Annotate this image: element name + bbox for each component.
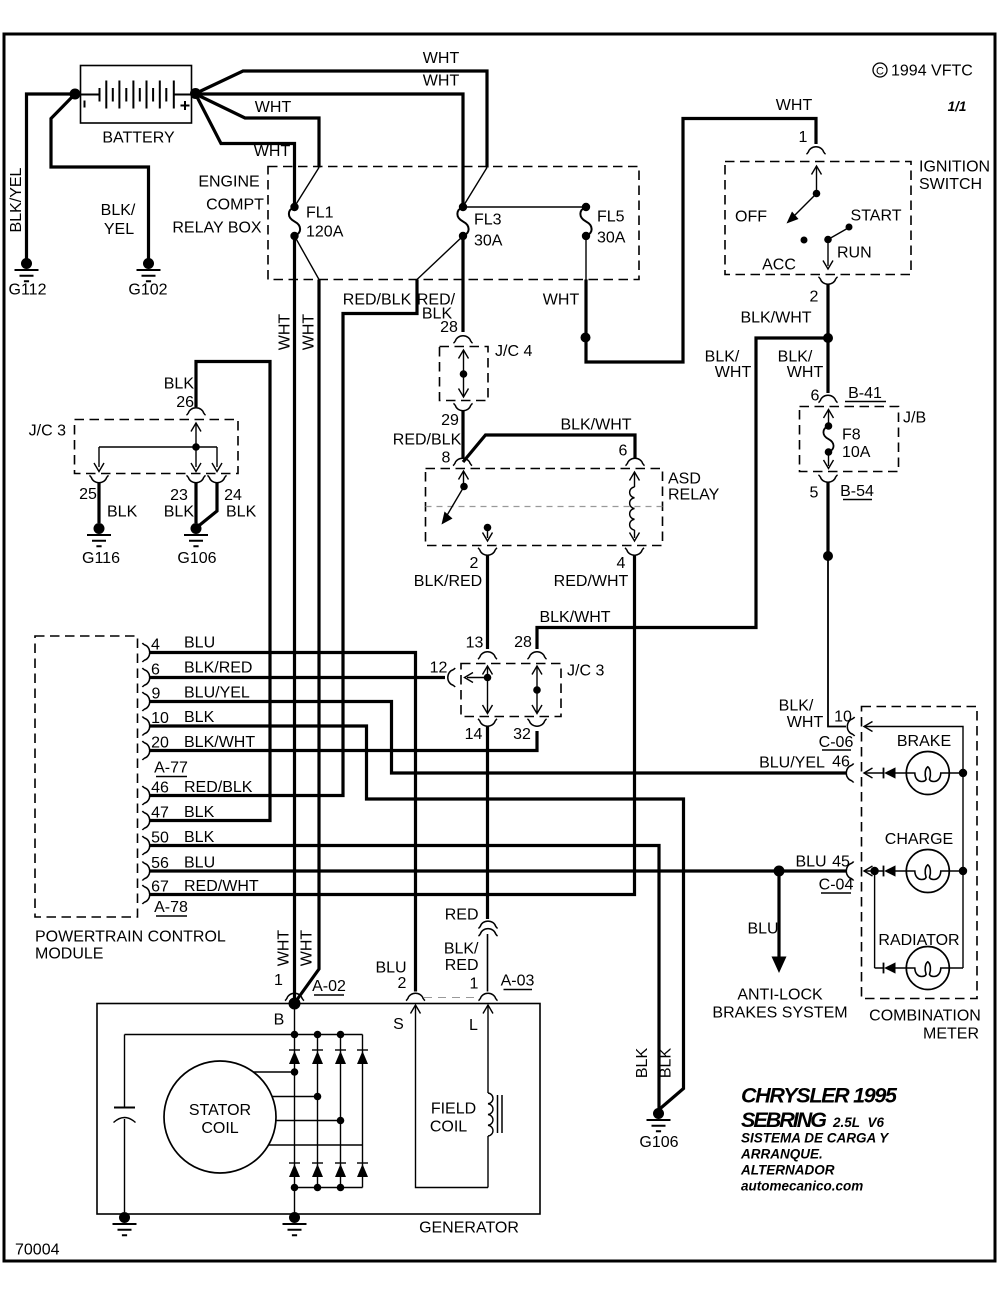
connector A-78 bbox=[154, 899, 188, 916]
wire WHT FL1 to generator B bbox=[276, 236, 295, 1000]
svg-text:START: START bbox=[851, 208, 902, 225]
svg-text:RED/BLK: RED/BLK bbox=[343, 292, 412, 309]
connector PCM pin 67 bbox=[142, 878, 258, 904]
junction block J/B bbox=[800, 407, 927, 472]
wire WHT FL5 to ignition switch pin 1 bbox=[543, 97, 816, 362]
wire BLK PCM pin 47 to J/C 3 pin 26 bbox=[150, 362, 270, 821]
svg-text:BRAKES SYSTEM: BRAKES SYSTEM bbox=[712, 1005, 847, 1022]
svg-text:14: 14 bbox=[465, 726, 483, 743]
svg-text:G116: G116 bbox=[82, 550, 120, 567]
connector B-54 pin 5 bbox=[810, 475, 874, 502]
svg-text:BLK/RED: BLK/RED bbox=[184, 660, 252, 677]
diode bridge column 1 bbox=[289, 1035, 300, 1218]
wire generator bus top bbox=[125, 1004, 363, 1039]
node START bbox=[846, 224, 853, 231]
svg-text:WHT: WHT bbox=[301, 314, 318, 351]
connector ASD relay pin 6 bbox=[625, 458, 644, 465]
svg-text:COIL: COIL bbox=[430, 1119, 467, 1136]
connector PCM pin 4 bbox=[142, 635, 215, 663]
svg-text:ENGINE: ENGINE bbox=[198, 174, 259, 191]
ground G116 bbox=[82, 523, 120, 567]
svg-text:G102: G102 bbox=[128, 282, 167, 299]
svg-text:RELAY: RELAY bbox=[668, 487, 720, 504]
wire FL3 to FL5 bbox=[463, 206, 586, 208]
svg-text:BLU: BLU bbox=[747, 921, 778, 938]
wire RED/BLK 28 FL3 to J/C 4 bbox=[417, 236, 463, 336]
svg-text:WHT: WHT bbox=[255, 99, 292, 116]
connector J/C 3 pin 12 bbox=[430, 660, 455, 688]
svg-text:WHT: WHT bbox=[543, 292, 580, 309]
wire BLK pin 25 to G116 bbox=[97, 483, 100, 524]
powertrain control module bbox=[35, 636, 226, 963]
svg-text:BLK: BLK bbox=[184, 829, 215, 846]
svg-text:32: 32 bbox=[513, 726, 531, 743]
lamp RADIATOR bbox=[875, 871, 963, 990]
node ACC bbox=[801, 237, 808, 244]
svg-text:COIL: COIL bbox=[201, 1120, 238, 1137]
connector J/C 4 pin 28 bbox=[453, 336, 472, 343]
ground G106 bbox=[177, 523, 216, 567]
connector C-04 pin 45 bbox=[795, 854, 853, 894]
svg-text:BLU/YEL: BLU/YEL bbox=[184, 685, 250, 702]
wire BLK/YEL battery to G112 bbox=[8, 94, 75, 259]
svg-text:G106: G106 bbox=[177, 550, 216, 567]
wire BLK pin 23 to G106 bbox=[194, 483, 197, 524]
svg-text:29: 29 bbox=[441, 412, 459, 429]
connector J/C 3 pin 32 bbox=[513, 719, 546, 743]
svg-text:5: 5 bbox=[810, 485, 819, 502]
svg-text:F8: F8 bbox=[842, 427, 861, 444]
svg-text:ARRANQUE.: ARRANQUE. bbox=[740, 1147, 823, 1162]
connector PCM pin 50 bbox=[142, 829, 214, 855]
wire RED J/C 3 pin 14 to inline connector bbox=[445, 726, 488, 924]
svg-text:BLK/RED: BLK/RED bbox=[414, 573, 482, 590]
svg-text:BLK: BLK bbox=[164, 376, 195, 393]
label copyright bbox=[873, 63, 973, 80]
svg-text:CHRYSLER 1995: CHRYSLER 1995 bbox=[741, 1084, 898, 1108]
svg-text:FL5: FL5 bbox=[597, 209, 625, 226]
svg-text:FIELD: FIELD bbox=[431, 1101, 476, 1118]
wire WHT battery to FL1 bbox=[196, 94, 295, 204]
svg-text:BLK: BLK bbox=[107, 504, 138, 521]
svg-text:OFF: OFF bbox=[735, 209, 767, 226]
svg-text:RADIATOR: RADIATOR bbox=[878, 932, 959, 949]
svg-text:1: 1 bbox=[470, 976, 479, 993]
connector PCM pin 6 bbox=[142, 660, 252, 688]
wire BLK/RED inline connector to generator L bbox=[444, 934, 488, 992]
ground generator center bbox=[283, 1212, 307, 1235]
svg-text:46: 46 bbox=[151, 780, 169, 797]
fuse F8 10A bbox=[823, 410, 870, 469]
connector ASD relay pin 2 bbox=[470, 548, 498, 572]
field coil bbox=[393, 1005, 502, 1188]
junction block J/C 3 upper bbox=[29, 420, 238, 474]
svg-text:RELAY BOX: RELAY BOX bbox=[172, 220, 262, 237]
svg-text:BLK/: BLK/ bbox=[101, 202, 136, 219]
svg-text:WHT: WHT bbox=[277, 314, 294, 351]
svg-text:1994 VFTC: 1994 VFTC bbox=[891, 63, 973, 80]
svg-text:WHT: WHT bbox=[423, 50, 460, 67]
svg-text:70004: 70004 bbox=[15, 1242, 60, 1259]
connector PCM pin 20 bbox=[142, 734, 255, 760]
wire BLU/YEL PCM pin 9 to C-04 region pin 46 bbox=[150, 702, 846, 774]
wire WHT battery to FL3 bbox=[196, 73, 464, 205]
svg-text:BLK/: BLK/ bbox=[705, 349, 740, 366]
svg-text:BLK/WHT: BLK/WHT bbox=[560, 417, 631, 434]
svg-text:28: 28 bbox=[440, 319, 458, 336]
svg-text:A-77: A-77 bbox=[154, 760, 188, 777]
wire WHT FL1 branch to generator B bbox=[295, 236, 320, 1001]
node RUN bbox=[823, 228, 872, 270]
svg-text:1: 1 bbox=[799, 129, 808, 146]
svg-text:BLU: BLU bbox=[375, 960, 406, 977]
connector J/C 3 pin 25 bbox=[79, 475, 137, 520]
svg-text:BATTERY: BATTERY bbox=[102, 130, 175, 147]
svg-text:WHT: WHT bbox=[776, 97, 813, 114]
svg-text:WHT: WHT bbox=[787, 714, 824, 731]
wire stator feeds bbox=[240, 1072, 363, 1145]
svg-text:SEBRING: SEBRING bbox=[741, 1108, 827, 1132]
fuse FL3 30A bbox=[457, 203, 502, 250]
connector PCM pin 9 bbox=[142, 685, 250, 712]
junction block J/C 4 bbox=[440, 343, 533, 401]
lamp BRAKE bbox=[864, 733, 967, 795]
svg-text:BLK/: BLK/ bbox=[444, 941, 479, 958]
svg-text:B-41: B-41 bbox=[848, 385, 882, 402]
svg-text:FL3: FL3 bbox=[474, 212, 502, 229]
connector ignition switch pin 2 bbox=[810, 277, 838, 306]
svg-text:28: 28 bbox=[514, 634, 532, 651]
svg-text:BLK/WHT: BLK/WHT bbox=[740, 310, 811, 327]
svg-text:BLK/: BLK/ bbox=[779, 698, 814, 715]
svg-text:23: 23 bbox=[170, 487, 188, 504]
svg-text:B: B bbox=[274, 1012, 285, 1029]
combination meter box bbox=[862, 707, 981, 1043]
fuse FL5 30A bbox=[580, 203, 625, 247]
label title block bbox=[740, 1084, 898, 1194]
connector ignition switch pin 1 bbox=[799, 129, 826, 154]
wire BLU PCM pin 56 to C-04 pin 45 bbox=[150, 869, 846, 872]
connector A-77 bbox=[154, 760, 188, 777]
svg-text:IGNITION: IGNITION bbox=[919, 159, 990, 176]
ground G106 lower bbox=[639, 1108, 678, 1151]
svg-text:BLK/WHT: BLK/WHT bbox=[184, 734, 255, 751]
diode bridge column 2 bbox=[312, 1035, 323, 1192]
wire RED/WHT ASD pin 4 to PCM pin 67 bbox=[150, 555, 635, 895]
node battery negative terminal bbox=[70, 89, 81, 100]
svg-text:2: 2 bbox=[470, 555, 479, 572]
engine compartment relay box bbox=[172, 167, 639, 280]
connector ASD relay pin 4 bbox=[617, 548, 645, 572]
connector C-06 pin 10 bbox=[819, 709, 855, 752]
svg-text:COMPT: COMPT bbox=[206, 197, 264, 214]
connector inline A-03 harness bbox=[478, 921, 497, 936]
connector J/C 3 pin 13 bbox=[466, 635, 497, 660]
svg-text:A-02: A-02 bbox=[312, 978, 346, 995]
ground G102 bbox=[128, 258, 167, 299]
svg-text:WHT: WHT bbox=[299, 930, 316, 967]
wire RED/BLK FL3 to PCM pin 46 bbox=[150, 236, 463, 796]
svg-text:automecanico.com: automecanico.com bbox=[741, 1179, 863, 1194]
svg-text:BLK: BLK bbox=[184, 804, 215, 821]
svg-text:CHARGE: CHARGE bbox=[885, 831, 953, 848]
svg-text:2.5L V6: 2.5L V6 bbox=[832, 1115, 885, 1130]
svg-text:30A: 30A bbox=[597, 230, 626, 247]
connector J/C 4 pin 29 bbox=[441, 403, 472, 429]
wire BLU to anti-lock brakes system bbox=[712, 871, 847, 1022]
connector PCM pin 47 bbox=[142, 804, 214, 830]
svg-text:J/C 3: J/C 3 bbox=[567, 663, 604, 680]
svg-text:RED: RED bbox=[445, 907, 479, 924]
wire BLU PCM pin 4 to generator S bbox=[150, 653, 416, 992]
connector J/C 3 pin 24 bbox=[207, 475, 256, 520]
wire BLK/WHT B-54 to C-06 bbox=[779, 482, 846, 731]
svg-text:RUN: RUN bbox=[837, 245, 872, 262]
svg-text:COMBINATION: COMBINATION bbox=[869, 1008, 981, 1025]
svg-text:BLK/: BLK/ bbox=[778, 349, 813, 366]
svg-text:BLU: BLU bbox=[795, 854, 826, 871]
svg-text:C: C bbox=[876, 66, 884, 78]
connector A-03 pin 1 bbox=[424, 973, 535, 1001]
diode bridge column 3 bbox=[335, 1035, 346, 1192]
battery B1 bbox=[81, 66, 192, 147]
svg-text:BRAKE: BRAKE bbox=[897, 733, 951, 750]
svg-text:RED/BLK: RED/BLK bbox=[393, 432, 462, 449]
connector S pin 2 bbox=[375, 960, 425, 1001]
svg-text:ACC: ACC bbox=[762, 257, 796, 274]
fuse FL1 120A bbox=[289, 203, 344, 241]
svg-text:1/1: 1/1 bbox=[948, 99, 967, 114]
svg-text:RED: RED bbox=[445, 957, 479, 974]
svg-text:30A: 30A bbox=[474, 233, 503, 250]
svg-text:WHT: WHT bbox=[715, 364, 752, 381]
junction block J/C 3 lower bbox=[461, 663, 604, 717]
svg-text:24: 24 bbox=[224, 487, 242, 504]
svg-text:METER: METER bbox=[923, 1026, 979, 1043]
svg-text:BLU: BLU bbox=[184, 635, 215, 652]
svg-text:STATOR: STATOR bbox=[189, 1102, 251, 1119]
svg-text:RED/BLK: RED/BLK bbox=[184, 779, 253, 796]
switch ignition rotor bbox=[787, 166, 822, 224]
svg-text:BLK: BLK bbox=[634, 1048, 651, 1079]
wire BLK/WHT ignition junction to J/C 3 pin 28 bbox=[537, 338, 828, 649]
svg-text:POWERTRAIN CONTROL: POWERTRAIN CONTROL bbox=[35, 929, 226, 946]
generator box bbox=[97, 1004, 540, 1237]
ignition switch bbox=[725, 159, 990, 275]
svg-text:MODULE: MODULE bbox=[35, 946, 103, 963]
svg-text:S: S bbox=[393, 1016, 404, 1033]
svg-text:A-03: A-03 bbox=[501, 973, 535, 990]
svg-text:WHT: WHT bbox=[423, 73, 460, 90]
coil ASD relay bbox=[630, 472, 640, 541]
svg-text:BLU: BLU bbox=[184, 855, 215, 872]
svg-text:BLK: BLK bbox=[226, 504, 257, 521]
wire BLK/RED PCM pin 6 to J/C 3 pin 12 bbox=[150, 676, 445, 679]
svg-text:J/C 4: J/C 4 bbox=[495, 343, 532, 360]
svg-text:ALTERNADOR: ALTERNADOR bbox=[740, 1163, 835, 1178]
svg-text:1: 1 bbox=[274, 972, 283, 989]
wire RED/BLK J/C 4 to ASD relay pin 8 bbox=[393, 410, 463, 467]
svg-text:BLK: BLK bbox=[658, 1048, 675, 1079]
svg-text:BLK/WHT: BLK/WHT bbox=[539, 609, 610, 626]
ground generator left bbox=[113, 1212, 137, 1235]
svg-text:J/B: J/B bbox=[903, 410, 926, 427]
wire BLK/WHT C-06 to lamp bus bbox=[864, 722, 963, 772]
ground G112 bbox=[9, 258, 47, 299]
wire BLK pin 24 to G106 bbox=[199, 483, 218, 527]
svg-text:WHT: WHT bbox=[276, 930, 293, 967]
connector PCM pin 10 bbox=[142, 709, 214, 736]
wire BLK/WHT PCM pin 20 to J/C 3 pin 32 bbox=[150, 731, 537, 751]
svg-text:ANTI-LOCK: ANTI-LOCK bbox=[737, 987, 823, 1004]
wire BLK/YEL battery to G102 bbox=[51, 94, 149, 259]
svg-text:B-54: B-54 bbox=[840, 483, 874, 500]
wire WHT battery to FL1 upper bbox=[196, 94, 320, 205]
svg-text:13: 13 bbox=[466, 635, 484, 652]
connector PCM pin 46 bbox=[142, 779, 252, 805]
lamp CHARGE bbox=[864, 771, 967, 968]
label BLK 26 bbox=[164, 376, 195, 412]
diode bridge column 4 bbox=[357, 1035, 368, 1188]
svg-text:6: 6 bbox=[619, 443, 628, 460]
connector J/C 3 pin 14 bbox=[465, 719, 497, 743]
svg-text:RED/WHT: RED/WHT bbox=[184, 878, 259, 895]
svg-text:8: 8 bbox=[442, 450, 451, 467]
svg-text:RED/WHT: RED/WHT bbox=[554, 573, 629, 590]
svg-text:SISTEMA DE CARGA Y: SISTEMA DE CARGA Y bbox=[741, 1131, 890, 1146]
svg-text:2: 2 bbox=[398, 975, 407, 992]
svg-text:25: 25 bbox=[79, 486, 97, 503]
svg-text:J/C 3: J/C 3 bbox=[29, 423, 66, 440]
connector J/C 3 pin 23 bbox=[164, 475, 206, 520]
connector J/C 3 pin 28 bbox=[514, 634, 546, 659]
svg-text:G112: G112 bbox=[9, 282, 47, 299]
node battery positive terminal bbox=[190, 88, 201, 99]
connector A-02 pin 1 bbox=[274, 972, 346, 1001]
svg-text:BLK/YEL: BLK/YEL bbox=[8, 167, 25, 232]
svg-text:SWITCH: SWITCH bbox=[919, 176, 982, 193]
svg-text:A-78: A-78 bbox=[154, 899, 188, 916]
svg-text:WHT: WHT bbox=[254, 143, 291, 160]
capacitor C1 bbox=[114, 1035, 136, 1213]
wire BLK/WHT ASD relay pin 8 to pin 6 bbox=[463, 417, 635, 463]
svg-text:YEL: YEL bbox=[104, 221, 134, 238]
svg-text:ASD: ASD bbox=[668, 471, 701, 488]
svg-text:C-06: C-06 bbox=[819, 734, 854, 751]
svg-text:BLK: BLK bbox=[164, 504, 195, 521]
svg-text:BLU/YEL: BLU/YEL bbox=[759, 755, 825, 772]
svg-text:C-04: C-04 bbox=[819, 877, 854, 894]
wire BLK PCM pin 50 to G106 bbox=[150, 846, 659, 1111]
node generator B terminal bbox=[274, 998, 301, 1029]
node BLU junction to ABS bbox=[774, 866, 785, 877]
svg-text:GENERATOR: GENERATOR bbox=[419, 1220, 519, 1237]
svg-text:BLK: BLK bbox=[184, 709, 215, 726]
connector B-41 pin 6 bbox=[811, 385, 886, 405]
wire generator bus bottom bbox=[295, 1187, 363, 1189]
stator coil bbox=[164, 1061, 276, 1173]
relay ASD bbox=[426, 469, 720, 546]
connector ASD relay pin 8 bbox=[453, 458, 472, 465]
svg-text:12: 12 bbox=[430, 660, 448, 677]
svg-text:10: 10 bbox=[834, 709, 852, 726]
wire BLK/WHT ignition pin 2 to B-41 bbox=[740, 284, 833, 393]
connector PCM pin 56 bbox=[142, 855, 215, 881]
wire BLK/RED ASD pin 2 to J/C 3 pin 13 bbox=[414, 555, 488, 649]
svg-text:67: 67 bbox=[151, 879, 169, 896]
wire WHT battery to FL3 upper bbox=[196, 50, 488, 205]
switch ASD relay contact bbox=[442, 471, 493, 541]
wire BLK to G106 lower labels bbox=[634, 1048, 675, 1079]
svg-text:FL1: FL1 bbox=[306, 205, 334, 222]
svg-text:4: 4 bbox=[617, 555, 626, 572]
connector C-06 pin 46 bbox=[759, 754, 854, 783]
connector J/C 3 pin 26 bbox=[186, 408, 205, 415]
svg-text:WHT: WHT bbox=[787, 364, 824, 381]
svg-text:10A: 10A bbox=[842, 444, 871, 461]
svg-text:L: L bbox=[469, 1017, 478, 1034]
svg-text:2: 2 bbox=[810, 289, 819, 306]
svg-text:G106: G106 bbox=[639, 1134, 678, 1151]
svg-text:120A: 120A bbox=[306, 224, 344, 241]
wire BLK PCM pin 10 to G106 bbox=[150, 726, 684, 1110]
